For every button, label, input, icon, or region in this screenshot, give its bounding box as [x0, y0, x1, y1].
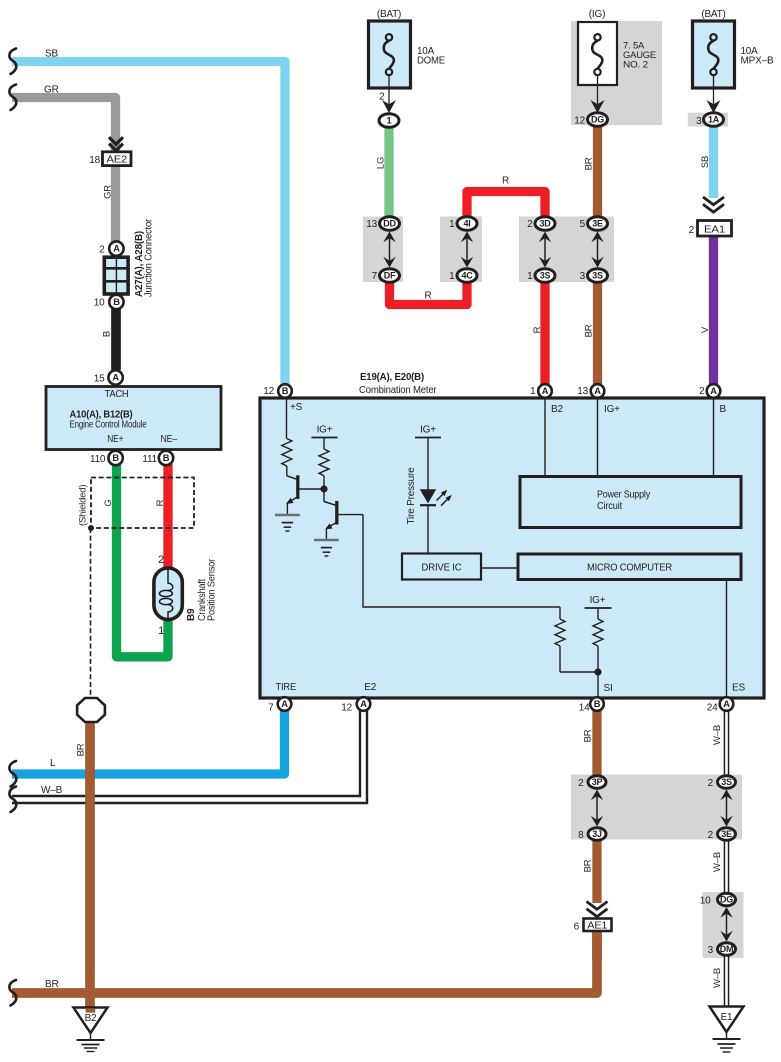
svg-text:GR: GR — [44, 85, 59, 96]
engine control module box — [46, 387, 221, 450]
ground Q2 emitter — [314, 540, 339, 556]
connector oval 3S upper2 — [588, 269, 608, 283]
svg-text:3: 3 — [580, 271, 586, 282]
fuse 7.5A GAUGE symbol — [592, 34, 602, 75]
junction connector A27(A) A28(B) box grid — [104, 257, 128, 294]
transistor Q1 collector diagonal — [287, 476, 297, 480]
svg-text:7: 7 — [268, 703, 274, 714]
wire G green from ECM pin 110 down and to crank sensor pin 1 — [117, 464, 169, 657]
svg-text:W–B: W–B — [712, 852, 723, 872]
svg-text:B2: B2 — [85, 1013, 97, 1024]
svg-text:2: 2 — [158, 554, 164, 566]
connector oval DF — [380, 269, 400, 283]
wire V violet from EA1 to meter pin 2 — [709, 237, 718, 385]
svg-text:R: R — [155, 499, 166, 506]
svg-text:(BAT): (BAT) — [701, 9, 725, 20]
svg-text:SB: SB — [700, 156, 711, 168]
wire into SI resistor left — [559, 607, 561, 619]
crank sensor coil symbol — [159, 569, 172, 619]
svg-text:3S: 3S — [592, 271, 603, 281]
transistor Q1 base wire to node — [298, 488, 324, 490]
svg-text:15: 15 — [94, 374, 105, 385]
svg-text:E2: E2 — [364, 682, 376, 693]
connector block shade 3D/3S/3E — [519, 217, 614, 283]
pair arrows 3E-3S upper — [591, 232, 603, 268]
svg-text:Position Sensor: Position Sensor — [207, 558, 218, 621]
svg-text:10: 10 — [700, 896, 711, 907]
wire BR brown from AE1 down joining ground bus — [592, 931, 602, 960]
pair arrows 4I-4C — [461, 232, 473, 268]
svg-text:18: 18 — [89, 155, 100, 166]
svg-text:2: 2 — [708, 830, 714, 841]
svg-text:IG+: IG+ — [590, 595, 606, 606]
connector block shade 3P/3J/3S/3E lower — [571, 775, 742, 840]
svg-text:111: 111 — [142, 454, 157, 465]
svg-text:B: B — [101, 331, 112, 337]
lead from fuse GAUGE to oval DG — [597, 75, 599, 112]
squiggle L left end — [9, 761, 16, 787]
transistor Q2 base wire right — [337, 514, 363, 516]
svg-text:2: 2 — [99, 244, 105, 255]
transistor Q2 emitter with arrow — [325, 523, 336, 540]
connector oval 3E lower — [718, 828, 736, 841]
pair arrows DG-DM — [720, 907, 732, 942]
shield drain dashed wire to octagon — [90, 528, 92, 696]
connector oval 4I — [457, 217, 477, 231]
svg-text:GR: GR — [102, 185, 113, 199]
arrowhead into oval 1A — [707, 100, 721, 113]
connector block shade DG/DM lower — [703, 892, 744, 958]
connector oval DG lower — [718, 893, 736, 906]
wire W-B from 3E to DG — [724, 840, 730, 894]
wire GR gray between AE2 and junction connector pin 2A — [111, 166, 120, 244]
drive IC box — [402, 554, 481, 580]
svg-text:4C: 4C — [462, 271, 474, 281]
resistor SI left — [555, 619, 565, 646]
svg-text:IG+: IG+ — [420, 425, 436, 436]
svg-text:12: 12 — [263, 386, 274, 397]
ground point B2 triangle — [74, 1008, 108, 1034]
wire W-B from DM to ground E1 — [724, 954, 730, 1007]
LED light arrows — [437, 490, 448, 501]
connector block shade 1A — [688, 113, 728, 127]
svg-text:DG: DG — [591, 115, 604, 125]
svg-text:R: R — [502, 176, 509, 187]
svg-text:110: 110 — [90, 454, 106, 465]
wire GR gray from left edge down to connector AE2 — [12, 98, 116, 153]
svg-text:(BAT): (BAT) — [377, 9, 401, 20]
svg-text:Circuit: Circuit — [597, 501, 622, 512]
page connector chevron AE2 — [109, 137, 123, 150]
ground point E1 triangle — [710, 1007, 744, 1033]
wire B black between junction pin 10B and ECM pin 15A — [111, 309, 121, 370]
connector oval 1A — [704, 113, 724, 127]
svg-text:A: A — [542, 386, 549, 396]
svg-text:4I: 4I — [464, 219, 471, 229]
pair arrows 3D-3S — [539, 232, 551, 268]
svg-text:IG+: IG+ — [604, 404, 620, 415]
svg-text:A: A — [112, 373, 119, 383]
crankshaft position sensor B9 body — [154, 568, 182, 620]
connector oval 3J — [588, 828, 606, 841]
svg-text:12: 12 — [574, 116, 585, 127]
svg-text:A: A — [723, 699, 730, 709]
wire BR brown from fuse GAUGE oval DG to connector 3E — [593, 126, 602, 217]
svg-text:2: 2 — [527, 219, 533, 230]
wire IG+ to resistor Q2 — [323, 438, 325, 450]
svg-text:3D: 3D — [540, 219, 552, 229]
svg-text:1: 1 — [449, 271, 455, 282]
squiggle GR left end — [9, 85, 16, 111]
wire node down to Q2 — [323, 489, 325, 502]
svg-text:R: R — [424, 291, 431, 302]
squiggle W-B left end — [9, 787, 16, 813]
svg-text:MICRO COMPUTER: MICRO COMPUTER — [587, 563, 672, 574]
combination meter box — [260, 398, 764, 698]
transistor Q1 emitter with arrow — [286, 498, 297, 516]
svg-text:3E: 3E — [721, 829, 732, 839]
svg-text:1: 1 — [527, 271, 533, 282]
svg-text:6: 6 — [574, 922, 580, 933]
svg-text:A: A — [360, 699, 367, 709]
connector oval 3E upper — [588, 217, 608, 231]
wire IG+ to LED — [427, 438, 429, 491]
wire SI node to pin 14 — [597, 672, 599, 698]
fuse 7.5A GAUGE box — [578, 22, 617, 85]
svg-text:SB: SB — [45, 49, 58, 60]
svg-text:A: A — [710, 386, 717, 396]
svg-text:DG: DG — [720, 895, 733, 905]
connector oval 3P — [588, 776, 606, 789]
svg-text:3: 3 — [708, 945, 714, 956]
shield drain junction dot — [88, 525, 94, 531]
wire SB sky-blue from fuse MPX oval 1A to connector EA1 — [709, 126, 718, 198]
internal wire B to power supply — [713, 398, 715, 477]
svg-text:Power Supply: Power Supply — [597, 490, 650, 501]
svg-text:2: 2 — [699, 386, 705, 397]
svg-text:NE–: NE– — [160, 434, 177, 445]
svg-text:3S: 3S — [721, 777, 732, 787]
svg-text:B2: B2 — [551, 404, 563, 415]
internal wire IG+ to power supply — [597, 398, 599, 477]
svg-text:W–B: W–B — [41, 785, 63, 796]
svg-text:2: 2 — [708, 778, 714, 789]
svg-text:A: A — [281, 699, 288, 709]
svg-text:TIRE: TIRE — [276, 682, 297, 693]
wire R red from 3S down to meter pin 1 — [540, 282, 549, 385]
svg-text:3S: 3S — [540, 271, 551, 281]
svg-text:NO. 2: NO. 2 — [623, 60, 648, 71]
arrowhead into oval DG — [591, 100, 605, 113]
svg-text:24: 24 — [707, 703, 718, 714]
wire W-B from meter pin 24 ES to connector 3S — [724, 711, 730, 778]
arrowhead into oval 1 — [382, 100, 396, 113]
svg-text:2: 2 — [379, 92, 385, 103]
wire IG+ to SI resistor — [597, 608, 599, 619]
svg-text:BR: BR — [582, 729, 593, 742]
pair arrows DD-DF — [383, 232, 395, 268]
ground hatching E1 — [713, 1032, 741, 1052]
svg-text:Tire Pressure: Tire Pressure — [406, 467, 417, 525]
connector oval 3S lower — [718, 776, 736, 789]
svg-text:+S: +S — [290, 402, 303, 413]
svg-text:IG+: IG+ — [317, 425, 333, 436]
svg-text:7: 7 — [372, 271, 378, 282]
connector block shade (IG) GAUGE fuse background — [571, 21, 662, 125]
svg-text:V: V — [700, 326, 711, 333]
svg-text:13: 13 — [577, 386, 588, 397]
fuse 10A MPX-B symbol — [708, 34, 718, 75]
svg-text:BR: BR — [583, 157, 594, 170]
wire BR brown from 3S lower to meter pin 13 — [593, 282, 602, 385]
svg-text:DM: DM — [720, 944, 733, 954]
svg-text:B9: B9 — [186, 608, 197, 621]
svg-text:AE1: AE1 — [587, 921, 608, 932]
connector oval DG top — [588, 113, 608, 127]
power supply circuit box — [520, 477, 741, 528]
connector block shade 4I/4C — [440, 217, 482, 283]
svg-text:Engine Control Module: Engine Control Module — [70, 419, 148, 430]
svg-text:(IG): (IG) — [589, 9, 605, 20]
svg-text:3E: 3E — [592, 219, 603, 229]
squiggle SB left end — [9, 49, 16, 75]
svg-text:NE+: NE+ — [107, 434, 123, 445]
wire BR brown long horizontal ground bus at bottom — [12, 931, 597, 993]
ground hatching B2 — [77, 1033, 105, 1052]
svg-text:10: 10 — [94, 298, 105, 309]
resistor R-Q2 collector — [319, 449, 329, 476]
wire SB sky-blue from left edge to combination meter pin 12 — [12, 62, 285, 385]
svg-text:DD: DD — [383, 219, 396, 229]
fuse 10A DOME symbol — [384, 34, 394, 75]
connector oval 3S upper — [535, 269, 555, 283]
svg-text:B: B — [163, 453, 170, 463]
connector oval DM — [718, 943, 736, 956]
svg-text:LG: LG — [375, 157, 386, 169]
shielded cable dashed outline — [91, 478, 194, 529]
svg-text:DOME: DOME — [417, 56, 446, 67]
svg-text:2: 2 — [578, 778, 584, 789]
wire LED to drive IC — [427, 505, 429, 553]
lead from fuse MPX to oval 1A — [713, 75, 715, 112]
svg-text:W–B: W–B — [712, 968, 723, 988]
IG+ rail bar SI — [585, 607, 612, 609]
connector oval 4C — [457, 269, 477, 283]
page connector chevron EA1 — [703, 197, 724, 212]
wire SI left resistor to node — [560, 671, 598, 673]
svg-text:BR: BR — [75, 743, 86, 756]
svg-text:(Shielded): (Shielded) — [78, 485, 89, 526]
wire R red from ECM pin 111 to crank sensor pin 2 — [163, 464, 172, 569]
svg-text:DF: DF — [384, 271, 396, 281]
transistor Q1 base bar — [296, 475, 299, 499]
svg-text:1: 1 — [449, 219, 455, 230]
wire L blue from left edge to meter pin 7 TIRE — [12, 711, 285, 775]
svg-text:AE2: AE2 — [107, 153, 128, 165]
internal wire +S to resistor — [286, 397, 288, 439]
squiggle BR left end — [9, 980, 16, 1006]
svg-text:1: 1 — [387, 116, 392, 126]
wire BR brown from meter pin 14 SI to connector 3P — [592, 711, 601, 777]
IG+ rail bar Q2 — [312, 437, 338, 439]
wire BR brown from shield octagon down to ground B2 — [85, 722, 95, 1009]
wire Q2 base to SI resistors — [363, 515, 560, 607]
svg-text:E19(A), E20(B): E19(A), E20(B) — [360, 372, 424, 383]
page connector chevron AE1 — [587, 902, 608, 917]
svg-text:3: 3 — [696, 116, 702, 127]
wire BR brown from connector 3J to AE1 — [592, 840, 601, 903]
svg-text:L: L — [50, 758, 56, 769]
svg-text:2: 2 — [689, 225, 695, 236]
svg-text:W–B: W–B — [712, 725, 723, 745]
transistor Q2 collector diagonal — [324, 502, 336, 506]
svg-text:1: 1 — [530, 386, 536, 397]
connector oval 1 — [379, 114, 399, 128]
svg-text:A: A — [113, 244, 120, 254]
wire W-B double line from left edge to meter pin 12 E2 — [12, 711, 364, 800]
svg-text:EA1: EA1 — [704, 223, 725, 235]
svg-text:MPX–B: MPX–B — [741, 56, 775, 67]
svg-text:B: B — [594, 699, 601, 709]
svg-text:12: 12 — [341, 703, 352, 714]
wire R red loop 4I to 3D — [467, 192, 545, 218]
svg-text:3P: 3P — [592, 777, 603, 787]
svg-text:A: A — [594, 386, 601, 396]
resistor R-Q1 collector — [282, 439, 292, 467]
lead from fuse DOME to oval 1 — [388, 88, 390, 113]
transistor Q2 base bar — [335, 501, 338, 525]
svg-text:1: 1 — [158, 625, 164, 637]
svg-text:14: 14 — [579, 703, 590, 714]
svg-text:13: 13 — [366, 219, 377, 230]
svg-text:SI: SI — [604, 683, 613, 694]
IG+ rail bar LED — [415, 437, 441, 439]
svg-text:B: B — [113, 297, 120, 307]
svg-text:B: B — [720, 404, 727, 415]
node dot Q1 base / Q2 collector — [320, 485, 327, 492]
shield ground octagon — [77, 698, 105, 722]
svg-text:3J: 3J — [592, 829, 602, 839]
svg-text:8: 8 — [578, 830, 584, 841]
wire R red loop DF to 4C — [390, 281, 468, 305]
svg-text:1A: 1A — [708, 115, 720, 125]
svg-text:TACH: TACH — [105, 389, 129, 400]
LED tire pressure diode — [420, 489, 436, 505]
connector oval 3D — [535, 217, 555, 231]
svg-text:BR: BR — [45, 979, 59, 990]
svg-text:ES: ES — [732, 683, 745, 694]
connector block shade DD/DF — [363, 217, 403, 283]
connector EA1 box — [698, 221, 732, 237]
wire micro computer ES to pin 24 — [726, 580, 728, 699]
pair arrows 3S-3E lower — [720, 790, 732, 827]
connector AE1 box — [584, 919, 612, 932]
svg-text:Combination Meter: Combination Meter — [359, 385, 437, 396]
wire LG light-green from fuse DOME oval 1 to connector DD — [384, 127, 393, 217]
ground Q1 emitter — [275, 515, 300, 531]
node dot SI — [594, 668, 601, 675]
svg-text:BR: BR — [582, 859, 593, 872]
wire drive IC to micro computer — [482, 567, 519, 569]
svg-text:5: 5 — [580, 219, 586, 230]
svg-text:BR: BR — [583, 324, 594, 337]
svg-text:R: R — [532, 326, 543, 333]
connector AE2 box — [103, 152, 132, 166]
resistor SI right — [593, 619, 603, 646]
svg-text:DRIVE IC: DRIVE IC — [422, 562, 463, 574]
fuse 10A DOME box — [369, 21, 411, 88]
micro computer box — [518, 554, 741, 580]
svg-text:B: B — [282, 386, 289, 396]
svg-text:B: B — [112, 453, 119, 463]
svg-text:G: G — [103, 499, 114, 506]
connector oval DD — [380, 217, 400, 231]
pair arrows 3P-3J — [591, 790, 603, 827]
svg-text:E1: E1 — [721, 1012, 733, 1023]
fuse 10A MPX-B box — [693, 21, 735, 88]
svg-text:Junction Connector: Junction Connector — [144, 218, 155, 297]
internal wire B2 to power supply — [544, 398, 546, 477]
